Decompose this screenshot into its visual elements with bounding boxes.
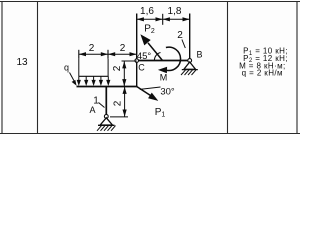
dim line top (1,6 / 1,8) bbox=[137, 18, 190, 20]
dim arrows top bbox=[137, 17, 144, 21]
svg-text:C: C bbox=[138, 63, 145, 73]
table column divider 2 bbox=[227, 2, 229, 134]
support A triangle bbox=[100, 118, 112, 125]
data text block bbox=[239, 47, 288, 78]
wire: rod 2 above B bbox=[189, 14, 191, 59]
svg-text:13: 13 bbox=[16, 57, 28, 68]
support B base line bbox=[182, 69, 198, 71]
wire: column at C (extension up to dim line) bbox=[136, 14, 138, 87]
svg-text:M: M bbox=[160, 73, 168, 83]
svg-text:30°: 30° bbox=[160, 87, 175, 98]
svg-text:2: 2 bbox=[89, 43, 95, 54]
support B triangle bbox=[184, 62, 196, 69]
svg-text:B: B bbox=[196, 50, 202, 60]
dim tick middle top bbox=[162, 14, 164, 25]
svg-text:1,8: 1,8 bbox=[168, 6, 182, 17]
wire: lower beam bbox=[77, 86, 138, 88]
force P2 arrow bbox=[148, 43, 163, 61]
table bottom border bbox=[0, 133, 300, 135]
svg-text:2: 2 bbox=[112, 65, 123, 71]
extension line at A level bbox=[110, 116, 128, 118]
svg-text:1,6: 1,6 bbox=[140, 6, 154, 17]
node A pin circle bbox=[104, 115, 108, 119]
wire: top beam C to B bbox=[137, 60, 190, 62]
force P1 arrow bbox=[137, 87, 151, 96]
table left border bbox=[1, 2, 3, 134]
svg-text:2: 2 bbox=[112, 100, 123, 106]
distributed load q top line bbox=[79, 75, 109, 77]
extension line from left tick down to load bbox=[78, 59, 80, 77]
svg-text:q = 2 кН/м: q = 2 кН/м bbox=[242, 69, 283, 78]
dim tick left end bbox=[78, 50, 80, 59]
support B hatching bbox=[181, 70, 196, 75]
table top border bbox=[0, 1, 300, 3]
extension line from middle tick down to load bbox=[107, 59, 109, 77]
svg-text:2: 2 bbox=[120, 43, 126, 54]
svg-text:A: A bbox=[89, 105, 95, 115]
wire: column at A bbox=[105, 87, 107, 115]
extension line left of C bbox=[122, 60, 137, 62]
svg-text:1: 1 bbox=[93, 96, 99, 107]
dim line left (2 / 2) bbox=[79, 53, 137, 55]
table column divider 1 bbox=[37, 2, 39, 134]
dim arrows left bbox=[79, 52, 86, 56]
node C pin circle bbox=[135, 59, 139, 63]
dim vertical lower (2) bbox=[124, 87, 126, 117]
45 deg angle arc bbox=[154, 53, 160, 61]
svg-text:q: q bbox=[64, 63, 69, 73]
distributed load arrows bbox=[79, 76, 109, 80]
node B pin circle bbox=[188, 59, 192, 63]
svg-text:45°: 45° bbox=[137, 51, 152, 62]
support A base line bbox=[98, 124, 115, 126]
dim tick middle bbox=[107, 50, 109, 59]
dim vertical upper (2) bbox=[123, 61, 125, 87]
table right border bbox=[296, 2, 298, 134]
moment M arc bbox=[166, 47, 181, 70]
support A hatching bbox=[97, 126, 116, 131]
30 deg leader line bbox=[140, 87, 161, 89]
